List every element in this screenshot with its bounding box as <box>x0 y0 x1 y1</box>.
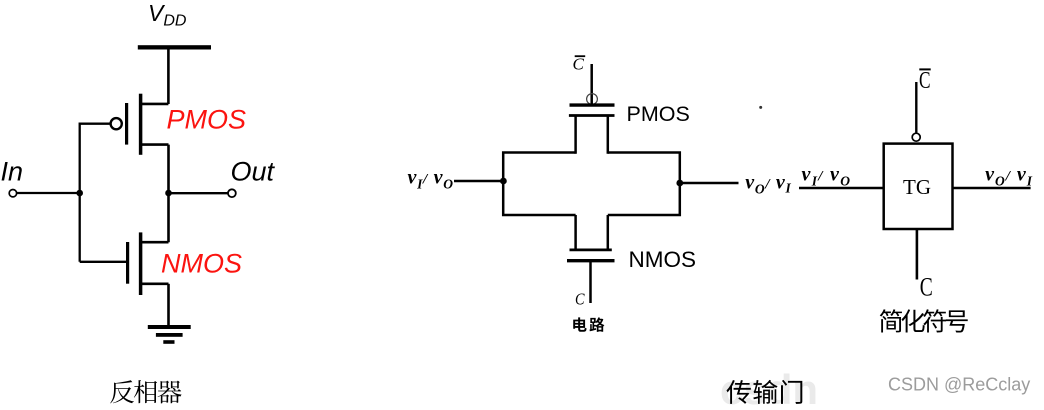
net label C-bar (middle) <box>573 54 586 73</box>
junction dot on gate bus <box>76 190 83 197</box>
svg-text:C: C <box>919 68 931 94</box>
net label C-bar (right) <box>919 68 931 94</box>
wire TG left rail <box>503 153 575 216</box>
transistor Q1 PMOS channel bar <box>139 94 143 155</box>
transistor Q1 PMOS gate bar <box>125 103 128 145</box>
wire right port (right diagram) <box>953 187 1031 190</box>
wire gate bus to PMOS bubble <box>80 123 111 125</box>
In terminal circle <box>9 190 16 197</box>
stray dot <box>759 106 762 109</box>
transistor Q2 NMOS source lead <box>142 282 169 285</box>
caption 简化符号 (simplified symbol) <box>880 309 968 332</box>
svg-text:PMOS: PMOS <box>627 102 690 126</box>
wire In to gate bus <box>16 192 80 194</box>
transistor PMOS source/drain leads (middle) <box>576 116 608 154</box>
PMOS gate bubble (middle, thin) <box>587 94 598 105</box>
wire NMOS source to ground <box>167 284 170 326</box>
junction dot right node (middle) <box>676 180 683 187</box>
TG gate bubble (right) <box>912 133 920 141</box>
wire C-bar to PMOS gate <box>590 64 593 105</box>
svg-text:vI/ vO: vI/ vO <box>802 164 852 189</box>
svg-text:C: C <box>920 273 933 302</box>
svg-text:C: C <box>573 54 585 73</box>
svg-text:NMOS: NMOS <box>161 248 242 278</box>
wire VDD rail to PMOS source <box>167 49 170 104</box>
TG box U1 <box>884 144 953 229</box>
svg-text:C: C <box>575 290 585 309</box>
svg-text:In: In <box>1 157 24 187</box>
junction dot on output bus <box>165 190 172 197</box>
junction dot left node (middle) <box>500 178 507 185</box>
transistor PMOS channel bar (middle) <box>569 114 615 117</box>
transistor Q1 PMOS gate bubble <box>111 118 122 129</box>
transistor NMOS source/drain leads (middle) <box>576 215 608 250</box>
wire output bus vertical <box>167 145 170 243</box>
caption 反相器 (inverter) <box>110 380 181 403</box>
wire NMOS gate to C <box>589 262 592 303</box>
wire left port (right diagram) <box>799 187 884 190</box>
VDD power rail <box>138 45 211 49</box>
svg-text:TG: TG <box>903 175 931 199</box>
svg-text:vO/ vI: vO/ vI <box>745 171 791 196</box>
transistor NMOS gate bar (middle) <box>567 259 615 262</box>
ground symbol <box>148 325 191 344</box>
wire TG right rail <box>608 153 680 216</box>
wire C-bar to TG bubble <box>915 82 917 133</box>
svg-text:PMOS: PMOS <box>167 105 247 135</box>
transistor NMOS channel bar (middle) <box>570 249 612 252</box>
transistor Q2 NMOS drain lead <box>142 241 169 244</box>
wire output bus to Out terminal <box>169 192 229 194</box>
svg-text:NMOS: NMOS <box>629 247 697 272</box>
svg-text:Out: Out <box>231 157 276 187</box>
transistor Q2 NMOS channel bar <box>139 232 143 295</box>
svg-text:vI/ vO: vI/ vO <box>408 167 454 192</box>
wire gate bus to NMOS gate <box>80 261 126 263</box>
svg-text:CSDN @ReCclay: CSDN @ReCclay <box>888 374 1030 394</box>
caption 传输门 (transmission gate) <box>726 380 802 404</box>
Out terminal circle <box>228 189 236 197</box>
transistor Q1 PMOS drain lead <box>142 143 169 146</box>
label 电路 (circuit) <box>573 317 604 332</box>
transistor Q1 PMOS source lead <box>142 103 169 106</box>
transistor PMOS gate bar (middle) <box>570 103 615 106</box>
svg-text:vO/ vI: vO/ vI <box>985 164 1033 189</box>
wire gate bus vertical <box>79 123 81 262</box>
svg-text:VDD: VDD <box>148 0 187 30</box>
wire bottom port C <box>916 229 919 280</box>
wire output (middle) <box>680 182 739 185</box>
wire input (middle) <box>454 180 503 183</box>
transistor Q2 NMOS gate bar <box>126 242 129 284</box>
